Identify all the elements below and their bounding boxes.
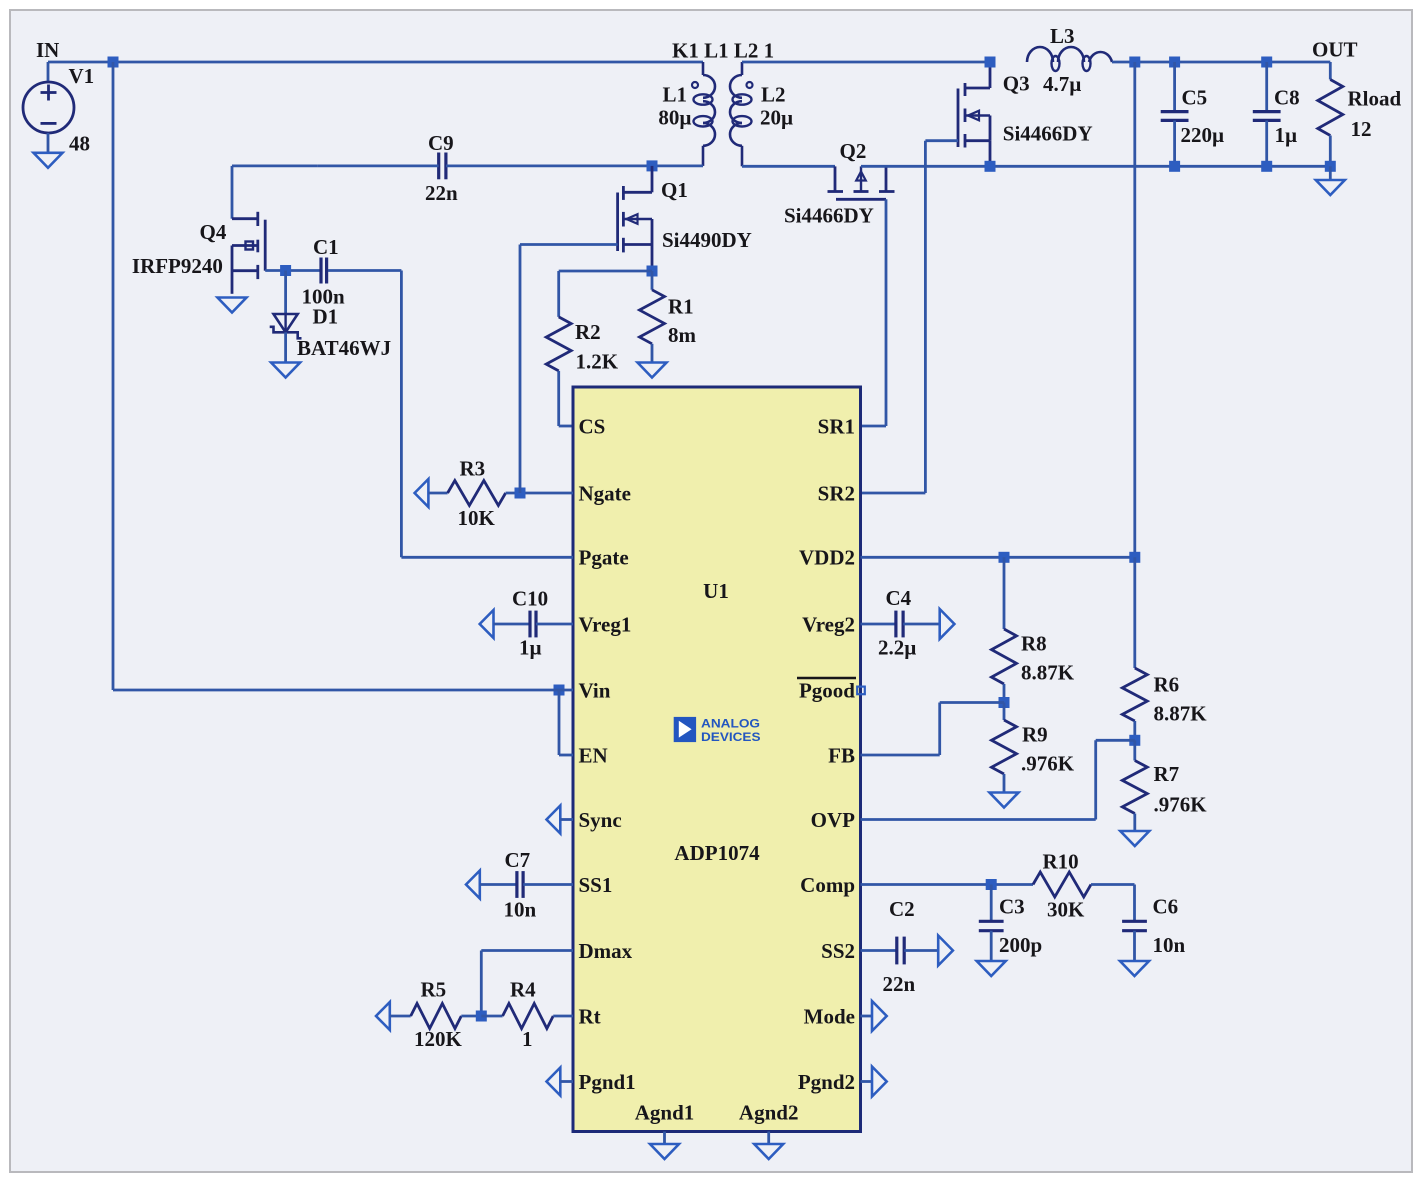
- svg-text:VDD2: VDD2: [799, 546, 855, 570]
- ground Agnd2: [767, 1132, 770, 1145]
- wire Rload bottom to ground: [1329, 166, 1332, 180]
- ground R1: [638, 363, 667, 378]
- svg-text:OUT: OUT: [1312, 38, 1358, 62]
- svg-text:SS2: SS2: [821, 939, 855, 963]
- junction C5 bottom: [1169, 161, 1180, 172]
- svg-text:EN: EN: [579, 743, 608, 767]
- svg-text:BAT46WJ: BAT46WJ: [297, 336, 391, 360]
- wire Q4 gate to C1 node: [265, 269, 319, 272]
- junction R8/R9 FB node: [999, 697, 1010, 708]
- svg-text:Agnd2: Agnd2: [739, 1101, 799, 1125]
- diode D1 BAT46WJ (schottky): [274, 314, 298, 332]
- ground D1: [271, 363, 300, 378]
- inductor L3 4.7u: [1027, 47, 1053, 62]
- svg-text:10n: 10n: [504, 898, 537, 922]
- svg-text:V1: V1: [69, 64, 95, 88]
- junction Rload bottom: [1325, 161, 1336, 172]
- svg-text:Si4466DY: Si4466DY: [1003, 122, 1093, 146]
- capacitor C9: [437, 153, 440, 180]
- svg-text:U1: U1: [703, 579, 729, 603]
- wire VDD2 row: [861, 556, 1135, 559]
- svg-text:22n: 22n: [425, 181, 458, 205]
- wire L3 to OUT: [1112, 61, 1330, 64]
- wire C9 to Q1 drain node: [446, 164, 652, 167]
- svg-text:C9: C9: [428, 131, 454, 155]
- wire VDD2 column: [1133, 62, 1136, 557]
- svg-text:R6: R6: [1154, 673, 1180, 697]
- wire L2 bottom to Q2 source: [742, 165, 835, 168]
- svg-text:20µ: 20µ: [760, 106, 793, 130]
- junction Vin node: [554, 685, 565, 696]
- junction Rt node: [476, 1011, 487, 1022]
- ground Agnd1: [663, 1132, 666, 1145]
- wire Q2 drain rail to output section: [861, 165, 1330, 168]
- transistor Q4 IRFP9240 (PMOS): [232, 217, 257, 220]
- ground Q4 source: [218, 298, 247, 313]
- svg-text:R5: R5: [421, 978, 447, 1002]
- svg-text:Sync: Sync: [579, 808, 622, 832]
- wire Q2 gate down to SR1: [885, 199, 888, 426]
- svg-text:C3: C3: [999, 895, 1025, 919]
- svg-text:D1: D1: [313, 305, 339, 329]
- svg-text:Q1: Q1: [661, 178, 688, 202]
- svg-text:R10: R10: [1043, 850, 1079, 874]
- voltage source V1: [47, 62, 50, 82]
- capacitor C2 22n on SS2: [861, 949, 897, 952]
- junction Q1 source node: [647, 266, 658, 277]
- svg-text:Q3: Q3: [1003, 72, 1030, 96]
- junction Ngate node: [515, 488, 526, 499]
- svg-text:220µ: 220µ: [1181, 123, 1225, 147]
- svg-text:Q2: Q2: [840, 139, 867, 163]
- inductor L1 primary 80u: [702, 62, 705, 75]
- resistor R4 1 on Rt: [481, 1015, 502, 1018]
- junction Q3 source bottom rail: [985, 161, 996, 172]
- junction C8 top: [1261, 57, 1272, 68]
- svg-text:CS: CS: [579, 414, 606, 438]
- svg-text:80µ: 80µ: [658, 106, 691, 130]
- resistor R5 120K on Rt: [376, 1002, 390, 1030]
- port arrow Pgnd2: [861, 1080, 873, 1083]
- svg-text:Pgood: Pgood: [799, 678, 855, 702]
- svg-text:2.2µ: 2.2µ: [878, 636, 916, 660]
- svg-text:R4: R4: [510, 978, 536, 1002]
- svg-text:120K: 120K: [414, 1027, 463, 1051]
- junction node gate/C1/D1: [280, 265, 291, 276]
- svg-text:8.87K: 8.87K: [1021, 661, 1075, 685]
- wire R2 bottom to CS pin: [559, 425, 573, 428]
- junction Comp/C3: [986, 879, 997, 890]
- svg-text:FB: FB: [828, 743, 855, 767]
- transistor Q3 Si4466DY (NMOS): [989, 62, 992, 88]
- resistor R6 8.87K upper: [1133, 557, 1136, 668]
- ground V1: [34, 153, 63, 168]
- svg-text:C2: C2: [889, 897, 915, 921]
- wire C1 to Pgate column: [328, 269, 401, 272]
- svg-text:22n: 22n: [883, 972, 916, 996]
- port arrow Pgnd1: [547, 1068, 561, 1096]
- wire rail to C9 and Q4 drain feed: [232, 164, 317, 167]
- port arrow Mode: [861, 1015, 873, 1018]
- capacitor C3 200p: [990, 885, 993, 922]
- svg-text:48: 48: [69, 132, 90, 156]
- svg-text:C7: C7: [505, 848, 531, 872]
- transistor Q1 Si4490DY (NMOS): [651, 166, 654, 192]
- svg-text:30K: 30K: [1047, 898, 1085, 922]
- inductor L2 secondary 20u: [741, 62, 744, 75]
- svg-text:Si4490DY: Si4490DY: [662, 228, 752, 252]
- svg-text:Comp: Comp: [800, 873, 855, 897]
- port arrow Sync: [547, 806, 561, 834]
- svg-text:200p: 200p: [999, 933, 1042, 957]
- svg-text:IN: IN: [36, 38, 59, 62]
- svg-text:K1 L1 L2 1: K1 L1 L2 1: [672, 39, 774, 63]
- svg-text:Vreg1: Vreg1: [579, 612, 632, 636]
- svg-text:C10: C10: [512, 587, 548, 611]
- op-amp U1 ADP1074 block: [573, 387, 861, 1132]
- svg-text:L1: L1: [662, 83, 687, 107]
- wire Comp row: [861, 883, 1034, 886]
- Pgood overline: [797, 677, 856, 680]
- svg-text:SR1: SR1: [818, 414, 855, 438]
- wire L1 bottom to Q1 drain junction: [652, 164, 703, 167]
- junction VDD2/R8: [999, 552, 1010, 563]
- svg-text:SS1: SS1: [579, 873, 613, 897]
- resistor R9 .976K: [1003, 703, 1006, 721]
- svg-text:1µ: 1µ: [519, 636, 542, 660]
- svg-text:Pgnd1: Pgnd1: [579, 1070, 636, 1094]
- wire Q3 gate to SR2 column: [925, 139, 958, 142]
- svg-text:1: 1: [522, 1027, 533, 1051]
- wire D1 anode: [284, 271, 287, 314]
- svg-text:SR2: SR2: [818, 481, 855, 505]
- svg-text:1µ: 1µ: [1275, 123, 1298, 147]
- resistor R10 30K: [1033, 872, 1091, 897]
- junction node IN column: [108, 57, 119, 68]
- svg-text:Mode: Mode: [804, 1004, 855, 1028]
- wire Dmax to Rt junction: [481, 949, 573, 952]
- svg-text:ANALOG: ANALOG: [701, 716, 760, 730]
- capacitor C8 1u: [1265, 62, 1268, 112]
- svg-text:R3: R3: [460, 457, 486, 481]
- junction R6/R7 OVP node: [1129, 735, 1140, 746]
- resistor R2 1.2K: [557, 271, 560, 317]
- wire OVP pin to divider: [861, 818, 1096, 821]
- svg-text:10n: 10n: [1153, 933, 1186, 957]
- wire Ngate junction up to Q1 gate: [519, 245, 522, 494]
- resistor Rload 12: [1329, 62, 1332, 80]
- svg-text:4.7µ: 4.7µ: [1043, 72, 1081, 96]
- ground output rail: [1316, 180, 1345, 195]
- junction C8 bottom: [1261, 161, 1272, 172]
- svg-text:R8: R8: [1021, 632, 1047, 656]
- resistor R7 .976K: [1133, 740, 1136, 760]
- svg-text:Rt: Rt: [579, 1004, 601, 1028]
- svg-text:C8: C8: [1274, 86, 1300, 110]
- wire Q1 source to R2 top: [559, 270, 652, 273]
- capacitor C7 10n on SS1: [466, 871, 480, 899]
- wire L2 top to Q3: [742, 61, 990, 64]
- junction VDD2 column top: [1129, 57, 1140, 68]
- junction Q3 drain top: [985, 57, 996, 68]
- svg-text:R7: R7: [1154, 762, 1180, 786]
- resistor R8 8.87K: [1003, 557, 1006, 629]
- svg-text:.976K: .976K: [1021, 752, 1075, 776]
- resistor R3 10K on Ngate: [415, 479, 429, 507]
- svg-text:Dmax: Dmax: [579, 939, 633, 963]
- capacitor C5 220u: [1173, 62, 1176, 112]
- svg-text:C4: C4: [886, 586, 912, 610]
- svg-text:R2: R2: [575, 320, 601, 344]
- svg-text:Vin: Vin: [579, 678, 611, 702]
- capacitor C1: [319, 258, 322, 284]
- svg-text:IRFP9240: IRFP9240: [132, 254, 223, 278]
- svg-text:C5: C5: [1182, 86, 1208, 110]
- svg-text:Pgnd2: Pgnd2: [798, 1070, 855, 1094]
- capacitor C4 2.2u on Vreg2: [861, 623, 897, 626]
- wire top rail from IN to transformer L1: [48, 61, 703, 64]
- transistor Q2 Si4466DY (NMOS, rotated): [834, 166, 837, 191]
- svg-text:ADP1074: ADP1074: [674, 841, 760, 865]
- svg-text:L3: L3: [1050, 24, 1075, 48]
- svg-text:Si4466DY: Si4466DY: [784, 204, 874, 228]
- svg-text:OVP: OVP: [811, 808, 856, 832]
- pin marker Pgood: [857, 687, 865, 695]
- ground C6: [1120, 961, 1149, 976]
- junction VDD2/R6: [1129, 552, 1140, 563]
- wire left column IN down to Vin row: [112, 62, 115, 690]
- svg-text:C6: C6: [1153, 895, 1179, 919]
- svg-text:10K: 10K: [458, 506, 496, 530]
- svg-text:DEVICES: DEVICES: [701, 730, 761, 744]
- svg-text:8m: 8m: [668, 323, 697, 347]
- svg-text:R9: R9: [1022, 723, 1048, 747]
- svg-text:Pgate: Pgate: [579, 546, 629, 570]
- svg-text:.976K: .976K: [1154, 793, 1208, 817]
- wire Vin row to pin: [113, 689, 573, 692]
- capacitor C6 10n: [1133, 885, 1136, 922]
- svg-text:1.2K: 1.2K: [576, 350, 619, 374]
- ground C3: [977, 961, 1006, 976]
- wire FB pin to divider: [861, 754, 940, 757]
- ground R9: [990, 793, 1019, 808]
- svg-text:Ngate: Ngate: [579, 481, 631, 505]
- svg-text:Vreg2: Vreg2: [802, 612, 855, 636]
- svg-text:Q4: Q4: [200, 220, 227, 244]
- svg-text:L2: L2: [761, 83, 786, 107]
- ground R7: [1120, 831, 1149, 846]
- svg-text:C1: C1: [313, 235, 339, 259]
- junction C5 top: [1169, 57, 1180, 68]
- svg-text:8.87K: 8.87K: [1154, 702, 1208, 726]
- wire Vin junction down to EN: [558, 690, 561, 755]
- svg-text:R1: R1: [668, 295, 694, 319]
- junction Q1 drain node: [647, 160, 658, 171]
- Analog Devices logo: [674, 717, 696, 742]
- capacitor C10 1u on Vreg1: [480, 610, 494, 638]
- svg-text:12: 12: [1351, 117, 1372, 141]
- wire D1 cathode to ground: [284, 332, 287, 362]
- svg-text:Rload: Rload: [1348, 87, 1402, 111]
- svg-text:Agnd1: Agnd1: [635, 1101, 695, 1125]
- resistor R1 8m: [651, 271, 654, 290]
- wire Pgate from C1 column to pin: [400, 271, 403, 558]
